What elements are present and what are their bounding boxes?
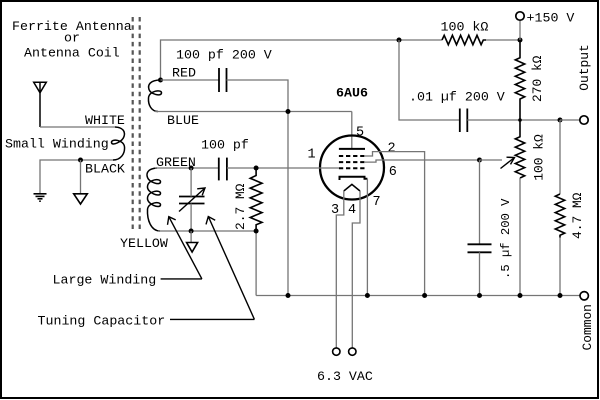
- wire tuning cap stubs: [190, 168, 192, 231]
- tube cathode: [340, 177, 368, 180]
- svg-text:100 kΩ: 100 kΩ: [532, 134, 547, 181]
- node 2.7M bottom: [254, 229, 259, 234]
- wire common rail: [256, 295, 579, 297]
- wire .01 cap to output junction: [467, 119, 560, 121]
- wire yellow ground stub: [190, 231, 192, 242]
- node BLACK junction: [78, 158, 83, 163]
- wire pin6 lead: [365, 160, 480, 162]
- svg-text:100 pf: 100 pf: [201, 138, 249, 153]
- potentiometer 100 kOhm: [515, 120, 524, 178]
- node pin6 junction: [477, 158, 482, 163]
- svg-text:Output: Output: [577, 44, 592, 90]
- node tuning cap top: [189, 166, 194, 171]
- coil large winding: [147, 168, 161, 231]
- wire pot bottom to rail: [519, 178, 521, 296]
- svg-text:270 kΩ: 270 kΩ: [530, 55, 545, 102]
- svg-text:or: or: [64, 31, 80, 46]
- tube grid row 1: [339, 155, 365, 157]
- svg-text:BLACK: BLACK: [85, 162, 125, 177]
- svg-text:100 kΩ: 100 kΩ: [441, 20, 489, 35]
- wire pin2 lead: [365, 152, 425, 296]
- node rail 4.7M: [558, 293, 563, 298]
- svg-text:+150 V: +150 V: [527, 11, 575, 26]
- wire output stub: [560, 119, 580, 121]
- capacitor .5 uf 200 V: [468, 244, 492, 252]
- ground chassis arrow yellow: [187, 243, 198, 253]
- callout large winding arrow: [161, 217, 202, 279]
- dashed separator line 1: [132, 17, 134, 231]
- coil primary red-blue: [148, 80, 161, 112]
- terminal Output: [580, 116, 588, 124]
- svg-text:.01 µf 200 V: .01 µf 200 V: [409, 90, 505, 105]
- wire top rail mid: [399, 39, 442, 41]
- resistor 4.7 MOhm: [555, 194, 564, 238]
- terminal heater 4: [349, 348, 356, 355]
- svg-text:100 pf 200 V: 100 pf 200 V: [176, 48, 272, 63]
- terminal heater 3: [333, 348, 340, 355]
- wire .5uf to rail: [479, 252, 481, 295]
- node output junction: [558, 118, 563, 123]
- wire .5uf branch: [479, 160, 481, 244]
- node B+ junction: [518, 38, 523, 43]
- capacitor tuning variable: [179, 197, 205, 204]
- pot wiper arrow: [501, 157, 515, 168]
- svg-text:YELLOW: YELLOW: [120, 236, 168, 251]
- dashed separator line 2: [139, 17, 141, 231]
- svg-text:4.7 MΩ: 4.7 MΩ: [570, 192, 585, 239]
- node 2.7M top: [254, 166, 259, 171]
- tube grid row 2: [339, 161, 365, 163]
- svg-text:4: 4: [348, 203, 356, 218]
- tube envelope 6AU6: [320, 136, 384, 200]
- wire BLACK lead: [40, 160, 113, 194]
- svg-text:6AU6: 6AU6: [336, 86, 368, 101]
- node rail red-cap: [286, 293, 291, 298]
- node RED junction: [158, 78, 163, 83]
- wire grid top right: [227, 167, 339, 169]
- terminal Common: [580, 292, 588, 300]
- resistor 100 kOhm top: [442, 35, 486, 44]
- coil small winding: [111, 127, 124, 160]
- wire red cap to down lead: [227, 80, 289, 296]
- antenna symbol: [34, 82, 47, 127]
- node top-left junction: [397, 38, 402, 43]
- node BLUE plate junction: [286, 109, 291, 114]
- svg-text:7: 7: [373, 195, 381, 210]
- svg-text:2.7 MΩ: 2.7 MΩ: [233, 183, 248, 230]
- wire grid top left: [155, 167, 219, 169]
- svg-text:.5 µf 200 V: .5 µf 200 V: [499, 198, 513, 279]
- tube heater: [344, 184, 360, 191]
- tuning cap arrow: [179, 188, 205, 212]
- wire pin3 lead: [336, 191, 344, 348]
- svg-text:6: 6: [389, 165, 397, 180]
- node tuning cap bottom: [189, 229, 194, 234]
- ground chassis arrow left: [74, 194, 88, 204]
- svg-text:2: 2: [388, 142, 396, 157]
- wire +150 stub: [519, 21, 521, 40]
- svg-text:Tuning Capacitor: Tuning Capacitor: [38, 314, 166, 329]
- capacitor 100 pf 200 V: [219, 68, 227, 92]
- wire WHITE lead: [40, 126, 115, 128]
- svg-text:WHITE: WHITE: [85, 113, 125, 128]
- svg-text:6.3 VAC: 6.3 VAC: [317, 369, 373, 384]
- wire pin5 lead: [351, 112, 353, 149]
- wire RED lead: [161, 79, 220, 81]
- tube grid row 3: [339, 167, 365, 169]
- svg-text:3: 3: [331, 203, 339, 218]
- node rail pot: [518, 293, 523, 298]
- wire black junction drop: [80, 160, 82, 194]
- node 270k/.01 crossing: [518, 118, 522, 122]
- wire .01 branch vertical: [399, 40, 460, 120]
- wire wiper stub: [480, 159, 503, 161]
- svg-text:RED: RED: [172, 66, 196, 81]
- svg-text:Common: Common: [580, 304, 595, 350]
- svg-text:Antenna Coil: Antenna Coil: [24, 46, 120, 61]
- callout tuning capacitor arrow: [170, 217, 254, 320]
- capacitor .01 uf 200 V: [460, 109, 468, 133]
- label Ferrite Antenna: [12, 19, 132, 61]
- node rail .5uf: [477, 293, 482, 298]
- ground earth: [34, 194, 47, 201]
- wire pin7 cathode drop: [366, 179, 368, 296]
- wire tank bottom: [158, 231, 256, 296]
- svg-text:Large Winding: Large Winding: [53, 273, 157, 288]
- resistor 2.7 MOhm: [250, 168, 262, 231]
- capacitor 100 pf grid: [219, 158, 227, 181]
- resistor 270 kOhm: [515, 40, 524, 120]
- svg-text:1: 1: [308, 148, 316, 163]
- wire 4.7M branch top: [559, 120, 561, 194]
- wire top rail left: [161, 40, 400, 80]
- tube plate: [339, 148, 365, 150]
- node rail pin7: [365, 293, 370, 298]
- wire 4.7M bottom to rail: [559, 238, 561, 296]
- svg-text:BLUE: BLUE: [167, 113, 199, 128]
- svg-text:Small Winding: Small Winding: [5, 137, 109, 152]
- wire to +150V node: [486, 39, 520, 41]
- terminal +150 V: [516, 12, 524, 20]
- wire pin4 lead: [352, 191, 360, 348]
- node rail pin2: [422, 293, 427, 298]
- wire BLUE lead: [155, 111, 352, 113]
